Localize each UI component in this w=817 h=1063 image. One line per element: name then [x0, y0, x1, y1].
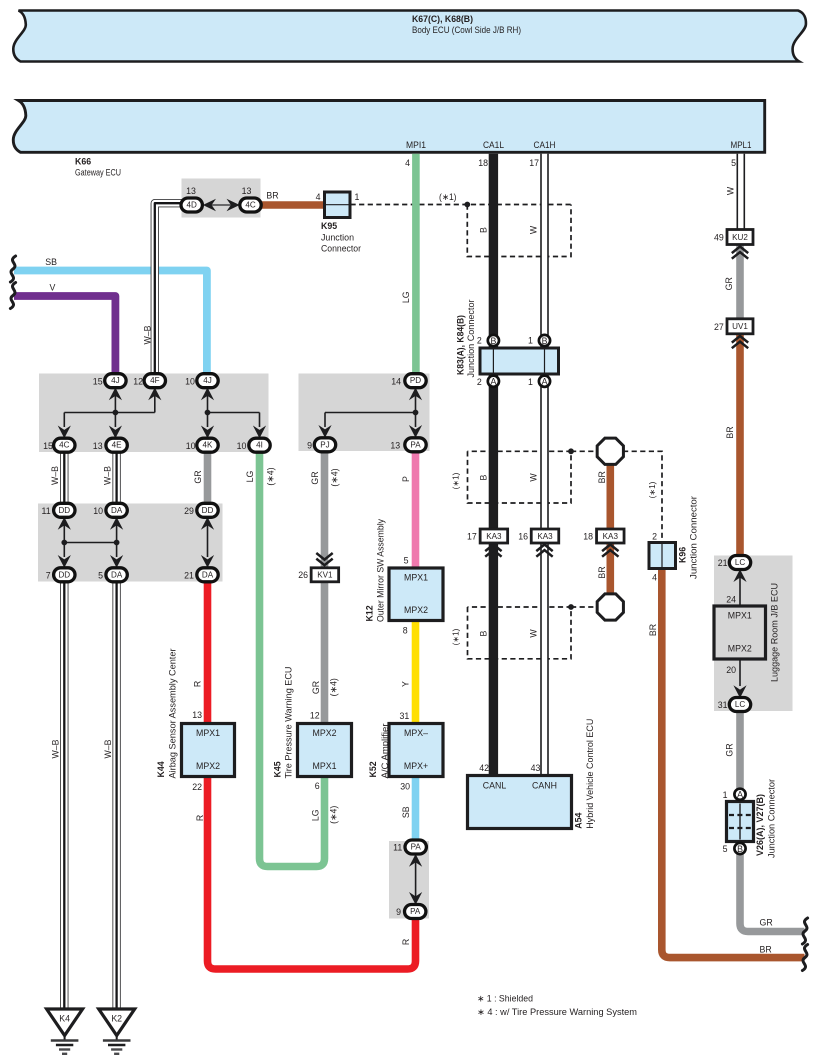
- junction connector K95: [325, 192, 351, 218]
- connector DA pin21: [197, 568, 218, 582]
- svg-text:13: 13: [93, 441, 103, 451]
- shield terminal octagon 1: [597, 438, 623, 464]
- svg-text:GR: GR: [311, 681, 321, 694]
- svg-text:1: 1: [355, 192, 360, 202]
- svg-text:W–B: W–B: [103, 739, 113, 758]
- svg-text:A: A: [737, 790, 743, 800]
- svg-text:LG: LG: [401, 291, 411, 303]
- ECU block K67 K68 Body ECU: [13, 11, 806, 62]
- junction connector K96: [649, 543, 676, 569]
- junction block shade PA-PA: [389, 841, 429, 919]
- svg-text:SB: SB: [45, 257, 57, 267]
- wire Y K12 to K52: [412, 621, 420, 724]
- ECU block K66 Gateway ECU: [13, 101, 764, 153]
- component K52 A/C Amplifier: [389, 724, 443, 777]
- component MPX luggage room: [714, 606, 766, 659]
- svg-text:4J: 4J: [111, 376, 120, 385]
- svg-text:GR: GR: [724, 277, 734, 290]
- svg-text:GR: GR: [760, 918, 773, 928]
- svg-text:K83(A), K84(B): K83(A), K84(B): [455, 315, 465, 375]
- svg-text:5: 5: [98, 570, 103, 580]
- svg-text:18: 18: [478, 158, 488, 168]
- svg-text:5: 5: [731, 158, 736, 168]
- svg-text:R: R: [195, 815, 205, 821]
- shield node dot 1: [464, 202, 470, 208]
- svg-text:Junction: Junction: [321, 232, 354, 242]
- svg-text:DA: DA: [111, 506, 123, 515]
- connector 4J pin15: [105, 374, 126, 388]
- break mark GR right: [802, 918, 807, 944]
- svg-text:4: 4: [405, 158, 410, 168]
- svg-text:LC: LC: [735, 700, 746, 709]
- svg-text:49: 49: [714, 233, 724, 243]
- svg-text:10: 10: [186, 441, 196, 451]
- connector PA pin11: [405, 840, 426, 854]
- svg-text:KA3: KA3: [486, 532, 502, 541]
- svg-text:CANL: CANL: [483, 781, 507, 791]
- svg-text:(∗1): (∗1): [648, 481, 657, 498]
- svg-text:21: 21: [718, 558, 728, 568]
- connector LC pin21: [729, 556, 750, 570]
- component K44 Airbag Sensor Assembly Center: [182, 724, 235, 777]
- terminal A pin2: [488, 376, 499, 387]
- svg-text:Junction Connector: Junction Connector: [466, 299, 476, 377]
- svg-text:12: 12: [133, 376, 143, 386]
- component A54 Hybrid Vehicle Control ECU: [468, 776, 572, 829]
- net DD29 to DA21: [201, 517, 214, 568]
- svg-text:V: V: [50, 282, 56, 292]
- wire LG MPI1 to PD: [412, 154, 420, 375]
- wire W MPL1 to KU2: [736, 154, 745, 230]
- svg-text:4K: 4K: [203, 441, 214, 450]
- net PA11 to PA9: [409, 854, 422, 905]
- svg-text:K45: K45: [273, 761, 283, 777]
- svg-text:4: 4: [652, 573, 657, 583]
- svg-text:MPX+: MPX+: [404, 761, 428, 771]
- wire P PA to K12: [412, 451, 420, 568]
- connector PD pin14: [405, 374, 426, 388]
- junction block shade DD-DA: [38, 504, 223, 582]
- wire GR LC31 to V26 to right edge: [740, 711, 805, 932]
- svg-text:A54: A54: [574, 812, 584, 828]
- svg-text:2: 2: [652, 532, 657, 542]
- svg-text:CANH: CANH: [532, 781, 557, 791]
- svg-text:KU2: KU2: [732, 233, 748, 242]
- svg-text:GR: GR: [725, 743, 735, 756]
- svg-text:4D: 4D: [187, 201, 198, 210]
- double arrow 4D-4C: [203, 199, 240, 212]
- svg-text:UV1: UV1: [732, 322, 748, 331]
- shield node dot 2: [568, 448, 574, 454]
- shield node dot 3: [568, 604, 574, 610]
- svg-text:4I: 4I: [256, 441, 263, 450]
- svg-text:22: 22: [192, 782, 202, 792]
- svg-text:MPX2: MPX2: [313, 728, 337, 738]
- svg-text:17: 17: [529, 158, 539, 168]
- svg-text:W: W: [529, 629, 539, 638]
- svg-text:(∗1): (∗1): [439, 192, 457, 202]
- shield link octagon1 to K96: [623, 451, 662, 543]
- svg-text:R: R: [193, 681, 203, 687]
- svg-text:MPX1: MPX1: [313, 761, 337, 771]
- svg-text:30: 30: [400, 781, 410, 791]
- svg-text:4J: 4J: [203, 376, 212, 385]
- junction block shade 4D-4C: [182, 179, 261, 218]
- wire GR 4K to DD: [204, 451, 212, 505]
- svg-text:PA: PA: [410, 907, 421, 916]
- svg-text:B: B: [542, 336, 548, 346]
- connector 4E pin13: [106, 438, 127, 452]
- svg-text:LC: LC: [735, 558, 746, 567]
- svg-text:BR: BR: [597, 471, 607, 483]
- svg-text:B: B: [479, 474, 489, 480]
- connector 4D: [181, 198, 202, 212]
- svg-text:5: 5: [723, 844, 728, 854]
- ground K2: [99, 1009, 135, 1054]
- connector UV1 pin27: [727, 319, 753, 334]
- connector PA pin13: [405, 438, 426, 452]
- wire GR PJ to KV1 to K45: [321, 451, 329, 724]
- svg-text:MPX1: MPX1: [404, 572, 428, 582]
- chevrons KV1: [316, 553, 332, 565]
- svg-text:10: 10: [185, 376, 195, 386]
- svg-text:13: 13: [186, 186, 196, 196]
- svg-text:BR: BR: [760, 945, 772, 955]
- terminal B pin5 V27: [734, 843, 745, 854]
- svg-text:11: 11: [393, 843, 402, 853]
- svg-text:CA1L: CA1L: [483, 140, 504, 150]
- svg-text:GR: GR: [310, 471, 320, 484]
- wire W-B DA to ground K2: [112, 581, 120, 1010]
- svg-text:K4: K4: [59, 1014, 70, 1024]
- svg-text:K96: K96: [677, 547, 687, 563]
- svg-text:Junction Connector: Junction Connector: [766, 779, 776, 858]
- svg-text:Connector: Connector: [321, 244, 361, 254]
- svg-text:13: 13: [390, 441, 400, 451]
- svg-text:DD: DD: [202, 506, 214, 515]
- svg-text:(∗1): (∗1): [452, 628, 461, 645]
- connector 4K pin10: [197, 438, 218, 452]
- connector DD pin29: [197, 503, 218, 517]
- connector LC pin31: [729, 698, 750, 712]
- shield box 2: [468, 451, 572, 503]
- svg-text:18: 18: [583, 532, 593, 542]
- wire SB K52 to PA: [412, 777, 420, 842]
- svg-text:CA1H: CA1H: [534, 140, 556, 150]
- svg-text:W–B: W–B: [142, 325, 152, 344]
- svg-text:5: 5: [404, 555, 409, 565]
- svg-text:Tire Pressure Warning ECU: Tire Pressure Warning ECU: [284, 667, 294, 779]
- wire BR KA3 to octagon2: [606, 543, 614, 595]
- svg-text:MPX–: MPX–: [404, 728, 428, 738]
- shield box 1: [467, 205, 571, 257]
- connector 4I pin10: [249, 438, 270, 452]
- svg-text:20: 20: [726, 665, 736, 675]
- wire W-B 4C to DD: [60, 451, 68, 505]
- svg-text:GR: GR: [193, 470, 203, 483]
- svg-text:W–B: W–B: [50, 739, 60, 758]
- connector KA3 pin18: [597, 529, 625, 543]
- component K12 Outer Mirror SW Assembly: [389, 568, 443, 621]
- svg-text:MPX1: MPX1: [196, 728, 220, 738]
- junction block shade PD-PA: [299, 374, 430, 452]
- svg-text:Y: Y: [401, 681, 411, 687]
- svg-text:4F: 4F: [150, 376, 160, 385]
- svg-text:6: 6: [315, 781, 320, 791]
- wire R DA to K44: [204, 581, 212, 724]
- break mark V: [10, 283, 15, 309]
- svg-text:PA: PA: [411, 843, 422, 852]
- shield dashed line from K95: [351, 204, 572, 206]
- svg-text:(∗4): (∗4): [328, 678, 338, 696]
- connector PJ pin9: [314, 438, 335, 452]
- net MPX2 to LC31: [733, 659, 746, 698]
- wire SB from left to 4J: [14, 271, 207, 376]
- svg-text:P: P: [401, 476, 411, 482]
- wire BR octagon1 to KA3: [606, 465, 614, 530]
- connector DD pin11: [54, 503, 75, 517]
- svg-text:DA: DA: [111, 570, 123, 579]
- svg-text:W: W: [529, 473, 539, 482]
- svg-text:A: A: [490, 377, 496, 387]
- wire BR 4C to K95: [260, 201, 325, 209]
- svg-text:K66: K66: [75, 157, 91, 167]
- svg-text:2: 2: [477, 377, 482, 387]
- svg-text:K52: K52: [368, 761, 378, 777]
- svg-text:W–B: W–B: [50, 466, 60, 485]
- terminal A pin1 V26: [734, 789, 745, 800]
- connector KA3 pin16: [531, 529, 559, 543]
- wire R K44 to PA: [208, 777, 416, 970]
- svg-text:13: 13: [192, 710, 202, 720]
- svg-text:1: 1: [528, 377, 533, 387]
- luggage room J/B ECU shade: [714, 556, 793, 712]
- ground K4: [47, 1009, 83, 1054]
- svg-text:K12: K12: [365, 605, 375, 621]
- svg-text:11: 11: [42, 506, 51, 516]
- net LC21 to MPX1: [733, 569, 746, 606]
- terminal B pin1: [539, 335, 550, 346]
- svg-text:15: 15: [43, 441, 53, 451]
- svg-text:B: B: [479, 227, 489, 233]
- svg-text:KV1: KV1: [317, 571, 333, 580]
- svg-text:(∗1): (∗1): [452, 472, 461, 489]
- svg-text:2: 2: [477, 336, 482, 346]
- svg-text:Gateway ECU: Gateway ECU: [75, 167, 121, 177]
- wire W-B 4D to 4F: [155, 203, 182, 375]
- svg-text:8: 8: [403, 626, 408, 636]
- connector DA pin5: [106, 568, 127, 582]
- chevrons KA3 18: [602, 545, 618, 557]
- component K45 Tire Pressure Warning ECU: [298, 724, 352, 777]
- svg-text:14: 14: [391, 376, 401, 386]
- junction connector K83 K84: [480, 348, 559, 374]
- svg-text:V26(A), V27(B): V26(A), V27(B): [755, 794, 765, 856]
- svg-text:MPI1: MPI1: [406, 140, 426, 150]
- terminal A pin1: [539, 376, 550, 387]
- connector PA pin9: [405, 905, 426, 919]
- junction connector V26 V27: [727, 802, 754, 842]
- svg-text:4E: 4E: [112, 441, 123, 450]
- svg-text:A: A: [542, 377, 548, 387]
- break mark SB: [10, 256, 15, 282]
- connector 4F pin12: [144, 374, 165, 388]
- svg-text:PA: PA: [410, 440, 421, 449]
- svg-text:DD: DD: [58, 570, 70, 579]
- connector 4C pin15: [54, 438, 75, 452]
- svg-text:MPX1: MPX1: [728, 610, 752, 620]
- chevrons KU2: [732, 247, 748, 259]
- svg-text:24: 24: [726, 595, 736, 605]
- svg-text:29: 29: [184, 506, 194, 516]
- svg-text:9: 9: [307, 441, 312, 451]
- svg-text:43: 43: [531, 763, 541, 773]
- wire BR K96 to right edge: [662, 569, 805, 958]
- shield link to octagon 2: [571, 606, 598, 608]
- svg-text:B: B: [737, 844, 743, 854]
- shield link to octagon 1: [571, 450, 598, 452]
- svg-text:LG: LG: [311, 809, 321, 821]
- wire LG 4I to K45: [260, 451, 325, 867]
- connector KU2 pin49: [727, 230, 753, 245]
- svg-text:W–B: W–B: [102, 466, 112, 485]
- svg-text:(∗4): (∗4): [330, 468, 340, 486]
- svg-text:Airbag Sensor Assembly Center: Airbag Sensor Assembly Center: [167, 648, 177, 778]
- svg-text:LG: LG: [245, 470, 255, 482]
- net PD to PJ-PA: [318, 388, 422, 438]
- svg-text:B: B: [490, 336, 496, 346]
- svg-text:SB: SB: [401, 806, 411, 818]
- connector KA3 pin17: [480, 529, 508, 543]
- svg-text:DA: DA: [202, 570, 214, 579]
- wire V from left to 4J: [14, 296, 115, 375]
- svg-text:MPX2: MPX2: [196, 761, 220, 771]
- svg-text:BR: BR: [648, 624, 658, 636]
- connector DD pin7: [54, 568, 75, 582]
- svg-text:(∗4): (∗4): [329, 806, 339, 824]
- svg-text:BR: BR: [725, 426, 735, 438]
- connector 4C: [240, 198, 261, 212]
- connector 4J pin10: [197, 374, 218, 388]
- svg-text:15: 15: [93, 376, 103, 386]
- svg-text:26: 26: [298, 570, 308, 580]
- svg-text:PD: PD: [410, 376, 421, 385]
- svg-text:42: 42: [479, 763, 489, 773]
- svg-text:1: 1: [723, 790, 728, 800]
- svg-text:BR: BR: [597, 566, 607, 578]
- svg-text:R: R: [401, 939, 411, 945]
- svg-text:4C: 4C: [245, 201, 256, 210]
- svg-text:13: 13: [242, 186, 252, 196]
- svg-text:Luggage Room J/B ECU: Luggage Room J/B ECU: [770, 583, 780, 682]
- svg-text:17: 17: [467, 532, 477, 542]
- svg-text:(∗4): (∗4): [265, 467, 275, 485]
- wire GR KU2 to UV1: [736, 245, 744, 320]
- svg-text:Outer Mirror SW Assembly: Outer Mirror SW Assembly: [376, 518, 386, 622]
- svg-text:10: 10: [237, 441, 247, 451]
- wire B CA1L to A54: [489, 154, 498, 776]
- svg-text:K95: K95: [321, 221, 337, 231]
- svg-text:KA3: KA3: [537, 532, 553, 541]
- svg-text:W: W: [529, 225, 539, 234]
- svg-text:∗ 4 : w/ Tire Pressure Warning: ∗ 4 : w/ Tire Pressure Warning System: [477, 1007, 637, 1017]
- svg-text:MPX2: MPX2: [728, 644, 752, 654]
- terminal B pin2: [488, 335, 499, 346]
- svg-text:Body ECU (Cowl Side J/B RH): Body ECU (Cowl Side J/B RH): [412, 25, 521, 35]
- chevrons KA3 16: [536, 545, 552, 557]
- svg-text:K2: K2: [111, 1014, 122, 1024]
- connector DA pin10: [106, 503, 127, 517]
- svg-text:MPL1: MPL1: [731, 140, 752, 150]
- chevrons KA3 17: [485, 545, 501, 557]
- shield box 3: [468, 607, 572, 659]
- svg-text:PJ: PJ: [320, 440, 329, 449]
- chevrons UV1: [732, 336, 748, 348]
- svg-text:31: 31: [718, 700, 728, 710]
- svg-text:BR: BR: [266, 190, 278, 200]
- svg-text:12: 12: [310, 711, 320, 721]
- svg-text:A/C Amplifier: A/C Amplifier: [380, 723, 390, 778]
- svg-text:K44: K44: [156, 761, 166, 777]
- connector KV1 pin26: [311, 568, 339, 582]
- svg-text:Hybrid Vehicle Control ECU: Hybrid Vehicle Control ECU: [585, 719, 595, 829]
- junction block shade 4J-4I: [39, 374, 269, 453]
- wire W-B 4E to DA: [112, 451, 120, 505]
- net DD-DA to DD-DA: [58, 517, 123, 568]
- svg-text:10: 10: [93, 506, 103, 516]
- svg-text:7: 7: [46, 570, 51, 580]
- wire BR UV1 to LC: [736, 334, 744, 557]
- shield terminal octagon 2: [597, 594, 623, 620]
- svg-text:∗ 1 : Shielded: ∗ 1 : Shielded: [477, 993, 533, 1003]
- svg-text:4C: 4C: [59, 441, 70, 450]
- svg-text:K67(C), K68(B): K67(C), K68(B): [412, 14, 473, 24]
- svg-text:9: 9: [396, 907, 401, 917]
- break mark BR right: [802, 945, 807, 971]
- svg-text:B: B: [479, 630, 489, 636]
- svg-text:21: 21: [184, 570, 194, 580]
- svg-text:MPX2: MPX2: [404, 605, 428, 615]
- wire W-B DD to ground K4: [60, 581, 68, 1010]
- svg-text:W: W: [726, 186, 736, 195]
- svg-text:Junction Connector: Junction Connector: [689, 496, 699, 579]
- svg-text:31: 31: [400, 711, 410, 721]
- svg-text:4: 4: [316, 192, 321, 202]
- svg-text:27: 27: [714, 322, 724, 332]
- svg-text:16: 16: [518, 532, 528, 542]
- net 4J to 4K-4I: [201, 388, 266, 439]
- svg-text:1: 1: [528, 336, 533, 346]
- wire W CA1H to A54: [540, 154, 549, 776]
- net 4J-4F to 4C-4E: [58, 388, 162, 439]
- svg-text:DD: DD: [58, 506, 70, 515]
- svg-text:KA3: KA3: [603, 532, 619, 541]
